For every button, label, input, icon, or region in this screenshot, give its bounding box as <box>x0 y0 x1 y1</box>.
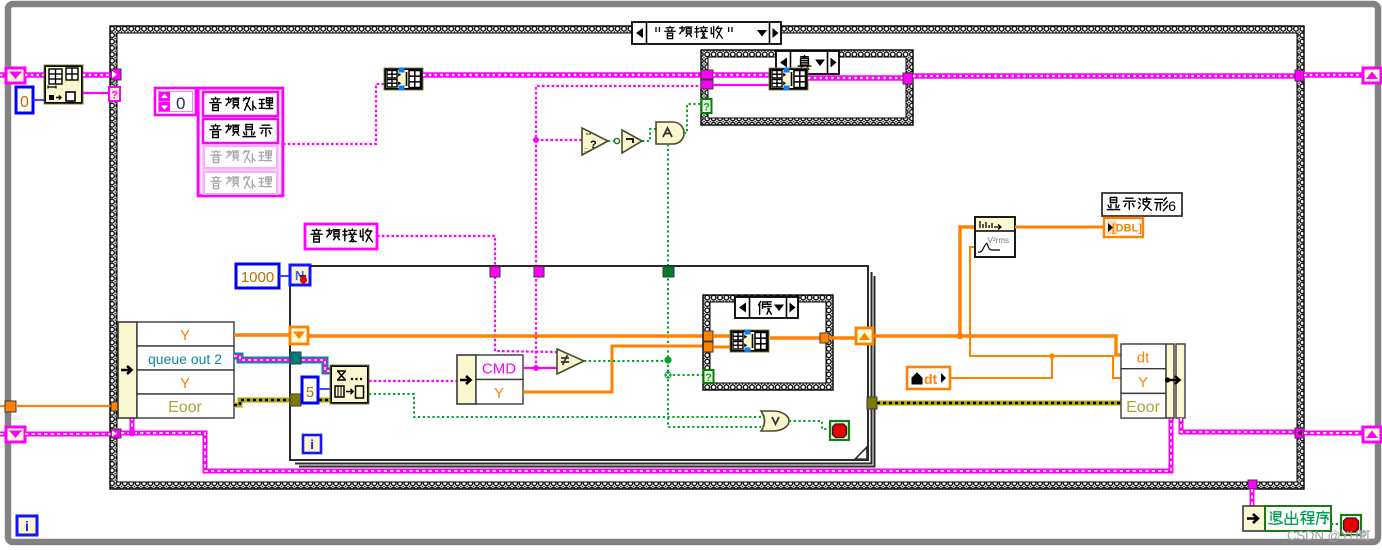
tunnel orange (false case right) <box>820 333 829 343</box>
wire: left stub lower shift register <box>0 432 6 437</box>
iteration terminal i (inner loop) <box>303 435 321 453</box>
wire: not to and <box>642 129 656 141</box>
wire: icon to case tunnel (array out) <box>83 72 111 78</box>
wire: long pink array wire along y=75 <box>423 72 701 78</box>
tunnel orange on while loop left <box>5 401 16 412</box>
dequeue element icon <box>330 365 369 404</box>
wire: Y out to case tunnel (via jog) <box>523 346 704 392</box>
svg-text:i: i <box>310 437 314 452</box>
shift register left top (pink) <box>6 68 25 83</box>
build array icon (false case) <box>730 330 769 353</box>
string constant array (音频处理/音频显示/...) <box>198 88 283 196</box>
wire: shift register to delete-from-array icon <box>25 72 44 78</box>
shift register left (orange, inner loop) <box>290 327 308 344</box>
boolean terminal 退出程序 <box>1243 506 1265 531</box>
empty string? node <box>582 128 608 155</box>
not equal node <box>557 349 584 374</box>
tunnel orange on case left <box>111 402 120 411</box>
wire: CMD string vertical riser <box>536 86 701 368</box>
tunnel pink (true case right) <box>903 73 913 84</box>
shift register right (orange, inner loop) <box>856 328 873 344</box>
wire: left stub into top shift register <box>0 72 6 78</box>
wire: string list to build-array icon <box>283 84 384 144</box>
wire: tunnels to icon inside true case <box>713 72 769 78</box>
wire: and lower input long vertical <box>667 144 669 360</box>
svg-text:Y: Y <box>180 375 190 392</box>
svg-text:Y: Y <box>180 327 190 344</box>
svg-text:::: :: <box>584 147 588 154</box>
wire: 音频接收 to inner loop tunnel <box>377 236 557 352</box>
selector tunnel ? (true case) <box>702 99 712 113</box>
svg-text:Eoor: Eoor <box>1126 399 1160 416</box>
wire: empty? to not <box>608 140 622 142</box>
loop count terminal N <box>290 265 310 285</box>
tunnel olive on inner loop right <box>867 397 877 409</box>
delete from array icon <box>44 65 83 104</box>
wire: orange bus inside loop <box>308 334 704 337</box>
tunnel pink (true case left #2) <box>701 80 713 89</box>
shift register right top (pink) <box>1363 68 1381 83</box>
svg-text:?: ? <box>111 90 118 102</box>
wire: thin orange dt/signal path <box>970 247 1121 378</box>
unbundle by name (Y, queue out 2, Y, Eoor) <box>118 322 234 418</box>
numeric control 0 (enum index) <box>155 88 196 115</box>
wire: true case to main case right tunnel <box>913 73 1295 79</box>
wire: terminal to stop button <box>1331 523 1341 525</box>
wires into icon (false case) <box>713 334 730 337</box>
svg-text:CSDN @YHP: CSDN @YHP <box>1287 528 1367 543</box>
wire: dequeue timed-out to OR <box>369 394 761 417</box>
wire: Y(1) waveform to inner-loop shift register <box>234 333 292 336</box>
wire: error cluster to bundle <box>877 401 1121 406</box>
case structure 真 (true) <box>701 50 913 125</box>
svg-text:queue out 2: queue out 2 <box>148 351 222 367</box>
shift register left bottom (pink) <box>6 427 25 442</box>
iteration terminal i (outer loop) <box>17 516 37 535</box>
tunnel pink case bottom (exit wire) <box>1248 480 1257 489</box>
build array icon (top) <box>384 68 423 91</box>
tunnel pink #2 on inner loop top <box>534 267 544 278</box>
svg-text:Y: Y <box>1138 374 1148 391</box>
case structure 假 (false) <box>703 295 833 390</box>
svg-text:V²rms: V²rms <box>988 236 1009 245</box>
and node <box>656 122 684 144</box>
wire: VI to DBL indicator <box>1015 226 1104 229</box>
svg-text:i: i <box>25 518 29 534</box>
conditional terminal (stop, inner loop) <box>830 421 849 440</box>
subdiagram fold corner <box>855 447 867 459</box>
wire: queue out 2 (refnum) <box>234 356 330 371</box>
stop button (while loop conditional) <box>1341 515 1361 535</box>
selector label 真 <box>776 51 839 74</box>
svg-text:dt: dt <box>924 371 938 387</box>
string constant 音频接收 <box>305 224 377 249</box>
case selector label "音频接收" <box>632 22 781 44</box>
tunnel pink #1 on inner loop top <box>490 267 500 278</box>
selector label 假 <box>735 297 798 318</box>
wire: bool down to OR / selector <box>668 360 761 427</box>
wire: icon out to right tunnel <box>770 336 820 339</box>
build array icon (true case) <box>769 68 808 91</box>
wire: != out <box>584 360 668 362</box>
svg-text:?: ? <box>703 102 710 114</box>
wire: CMD out <box>523 367 557 369</box>
wire: cluster to unbundle and along bottom <box>121 418 1171 471</box>
svg-text:dt: dt <box>1137 350 1150 367</box>
tunnel (pink, case left top) <box>111 69 121 80</box>
selector tunnel ? (false case) <box>704 370 714 383</box>
not node <box>622 130 642 153</box>
indicator [DBL] <box>1104 218 1143 237</box>
wire: dt to junction <box>950 356 1052 378</box>
svg-text:6: 6 <box>1168 198 1176 214</box>
svg-text:?: ? <box>705 372 712 384</box>
tunnel teal on inner loop left <box>290 352 301 364</box>
svg-text:5: 5 <box>306 384 314 401</box>
inner for loop frame <box>290 266 875 467</box>
svg-text:Y: Y <box>494 385 504 402</box>
tunnel pink case right bottom <box>1295 428 1304 438</box>
local variable dt <box>907 367 950 389</box>
tunnel green on inner loop top <box>663 267 674 278</box>
wire: icon out to right tunnel (true case) <box>808 75 903 81</box>
wire: 0 to icon <box>33 99 44 101</box>
wire: and output to true-case ? tunnel <box>684 104 701 133</box>
tunnel pink case left bottom <box>111 429 121 438</box>
svg-text:CMD: CMD <box>482 361 516 378</box>
shift register right bottom (pink) <box>1363 427 1381 442</box>
svg-text:0: 0 <box>20 94 29 111</box>
svg-text:1000: 1000 <box>241 269 274 286</box>
unbundle by name CMD/Y <box>457 355 523 404</box>
numeric constant 1000 <box>236 264 279 288</box>
or node <box>761 411 789 431</box>
tunnel pink (true case left #1) <box>701 70 713 79</box>
wire: Eoor error wire <box>234 400 330 405</box>
wire: orange bus right of loop <box>873 336 1121 355</box>
case selector terminal ? <box>109 87 120 101</box>
svg-text:Eoor: Eoor <box>168 399 202 416</box>
tunnel olive on inner loop left <box>290 394 301 406</box>
bundle by name (dt, Y, Eoor) <box>1121 344 1185 418</box>
numeric constant 5 <box>302 377 318 403</box>
svg-text:0: 0 <box>176 94 185 113</box>
svg-text:[DBL]: [DBL] <box>1112 223 1142 235</box>
tunnel pink case top right <box>1295 70 1304 81</box>
svg-text:?: ? <box>590 139 597 151</box>
wire: bundle out to case tunnel and exit wire <box>1181 418 1295 432</box>
wire: dequeue element out to CMD unbundle <box>369 380 457 382</box>
indicator label 显示波形 6 <box>1102 193 1182 216</box>
tunnel orange (false case left #2) <box>704 342 714 352</box>
case structure 音频接收 <box>110 26 1304 489</box>
wire: icon to case selector (string out) <box>83 92 109 94</box>
amplitude and level measurements VI icon <box>975 217 1015 257</box>
tunnel orange (false case left #1) <box>704 331 714 341</box>
numeric constant 0 <box>16 87 33 113</box>
wire: or out to conditional terminal <box>789 421 830 429</box>
orange wire from while-loop tunnel into case <box>0 405 5 407</box>
wire: 1000 to N terminal <box>279 275 291 277</box>
